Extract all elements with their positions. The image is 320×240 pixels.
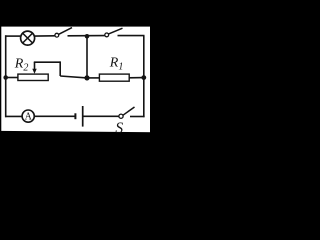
svg-text:A: A (25, 112, 33, 123)
svg-text:S: S (115, 120, 123, 137)
